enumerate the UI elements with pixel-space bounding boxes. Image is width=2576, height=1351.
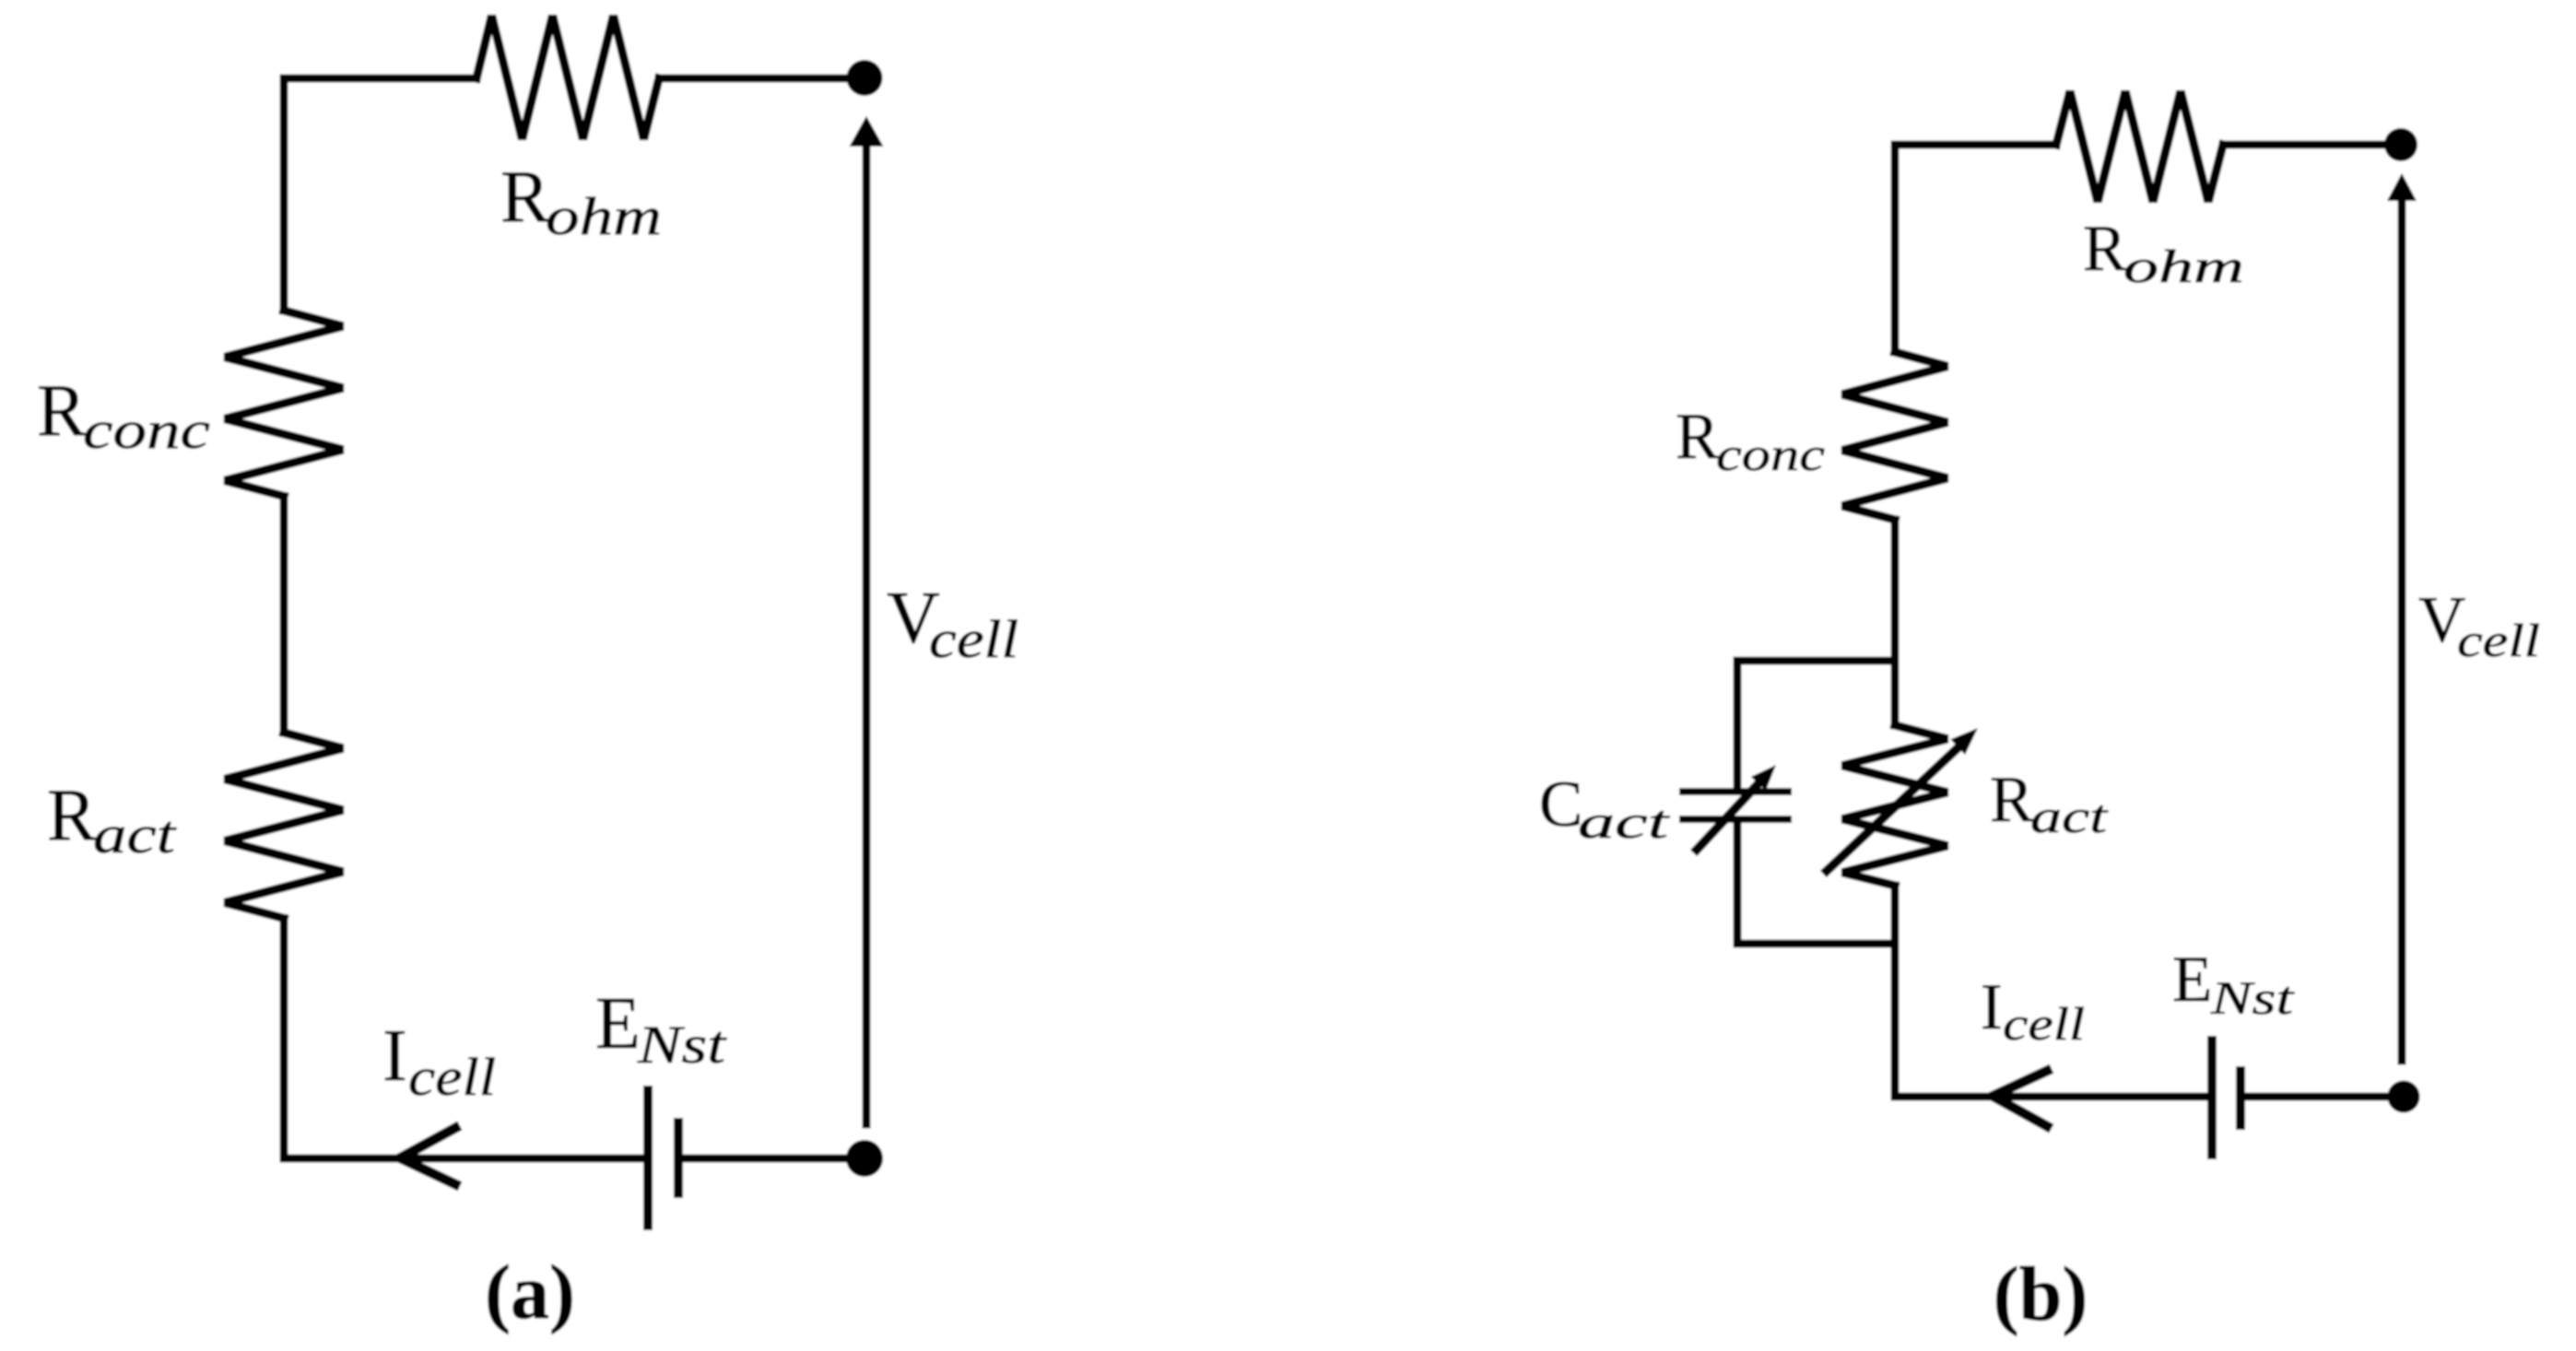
label ENst (b)	[2172, 944, 2295, 1025]
svg-text:R: R	[2083, 213, 2127, 285]
resistor Rohm (b)	[2056, 91, 2223, 202]
wire (a): Ract to bottom-left corner and bottom wire to battery	[284, 919, 640, 1159]
label Ract (a)	[47, 775, 177, 864]
wire (a): top-left corner, Rconc top lead	[284, 78, 476, 311]
svg-text:(b): (b)	[1994, 1251, 2088, 1337]
voltage arrow Vcell (a): shaft	[863, 144, 871, 1124]
svg-text:conc: conc	[1716, 429, 1825, 481]
resistor Ract (a)	[225, 733, 343, 919]
svg-text:cell: cell	[2457, 616, 2540, 667]
svg-text:I: I	[382, 1016, 407, 1097]
wire (a): battery to bottom node	[683, 1155, 848, 1163]
wire (b): Rconc to parallel box top	[1891, 520, 1900, 661]
label Rconc (a)	[37, 370, 210, 460]
svg-text:act: act	[93, 805, 177, 864]
resistor Rconc (b)	[1842, 352, 1947, 520]
svg-text:C: C	[1539, 769, 1582, 840]
node (b): top-right junction dot	[2384, 128, 2417, 161]
svg-text:cell: cell	[929, 609, 1018, 669]
battery ENst (b): short plate	[2236, 1071, 2245, 1125]
current arrow Icell (a)	[403, 1128, 455, 1184]
svg-text:R: R	[1676, 401, 1720, 473]
node (b): bottom-right junction dot	[2388, 1081, 2420, 1113]
current arrow Icell (b)	[1995, 1071, 2047, 1126]
variable arrow of Cact (b)	[1697, 781, 1760, 850]
resistor Rohm (a)	[476, 16, 659, 139]
label Rohm (b)	[2083, 213, 2244, 293]
svg-text:(a): (a)	[485, 1250, 575, 1335]
resistor Rconc (a)	[225, 311, 343, 497]
svg-text:R: R	[1990, 764, 2034, 836]
wire (b): capacitor branch lower lead	[1734, 823, 1742, 944]
label Ract (b)	[1990, 764, 2109, 843]
svg-text:act: act	[2030, 792, 2109, 843]
svg-text:cell: cell	[408, 1047, 496, 1107]
voltage arrow Vcell (b): arrowhead	[2387, 173, 2417, 201]
svg-text:Nst: Nst	[637, 1015, 728, 1075]
wire (b): parallel box bottom horizontal	[1737, 940, 1895, 948]
wire (a): Rohm to top node	[659, 75, 850, 83]
label Rconc (b)	[1676, 401, 1825, 481]
label Vcell (a)	[887, 578, 1018, 669]
battery ENst (b): long plate	[2207, 1040, 2217, 1155]
voltage arrow Vcell (a): arrowhead	[850, 116, 884, 147]
svg-text:E: E	[2172, 944, 2212, 1016]
wire (a): Rconc to Ract	[280, 497, 288, 734]
voltage arrow Vcell (b): shaft	[2398, 198, 2406, 1061]
capacitor Cact (b): bottom plate	[1683, 816, 1788, 823]
svg-text:act: act	[1578, 797, 1671, 849]
svg-text:R: R	[500, 157, 550, 238]
svg-text:cell: cell	[2003, 999, 2085, 1051]
wire (b): Ract to bottom-left corner and bottom wire to battery	[1895, 886, 2208, 1097]
svg-text:ohm: ohm	[546, 186, 662, 246]
label Icell (b)	[1981, 971, 2085, 1051]
wire (b): top-left corner, Rconc top lead	[1895, 145, 2056, 352]
wire (b): capacitor branch upper lead	[1734, 661, 1742, 788]
label Icell (a)	[382, 1016, 496, 1107]
svg-text:R: R	[47, 775, 97, 856]
resistor Ract (b)	[1842, 725, 1947, 886]
svg-text:R: R	[37, 370, 87, 452]
capacitor Cact (b): top plate	[1683, 788, 1788, 795]
variable arrow of Ract (b): arrowhead	[1950, 728, 1978, 755]
svg-text:I: I	[1981, 971, 2003, 1043]
svg-text:conc: conc	[83, 400, 210, 460]
label Rohm (a)	[500, 157, 662, 246]
svg-text:ohm: ohm	[2123, 241, 2244, 293]
node (a): bottom-right junction dot	[846, 1140, 883, 1177]
wire (b): box top to Ract	[1891, 661, 1900, 725]
wire (b): Rohm to top node	[2223, 141, 2387, 149]
label Vcell (b)	[2418, 584, 2540, 667]
variable arrow of Ract (b)	[1827, 746, 1960, 871]
svg-text:Nst: Nst	[2210, 973, 2296, 1025]
battery ENst (a): short plate	[674, 1122, 683, 1193]
label ENst (a)	[595, 983, 727, 1075]
svg-text:E: E	[595, 983, 641, 1064]
wire (b): battery to bottom node	[2241, 1093, 2389, 1101]
wire (b): parallel box top horizontal	[1737, 657, 1895, 665]
label Cact (b)	[1539, 769, 1671, 849]
battery ENst (a): long plate	[643, 1090, 653, 1226]
variable arrow of Cact (b): arrowhead	[1751, 765, 1776, 791]
node (a): top-right junction dot	[847, 60, 883, 96]
